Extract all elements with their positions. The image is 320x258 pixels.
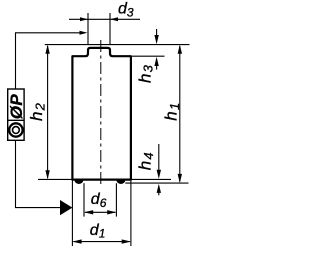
top extension line (seating of h1,h2,h3 top): [45, 44, 190, 46]
capacitor body outline: [72, 48, 130, 180]
dimension d6 extension lines: [83, 183, 85, 216]
bottom extension line (body bottom): [38, 178, 171, 180]
centerline (axis): [100, 40, 102, 186]
shoulder extension line (right): [132, 55, 165, 57]
dimension d3 extension lines: [87, 13, 89, 45]
dimension h2 line with arrows: [47, 46, 49, 178]
dimension h1 line with arrows: [179, 46, 181, 182]
left foot bump: [74, 180, 83, 184]
dimension d6 line with arrows: [85, 211, 115, 213]
datum solid triangle on d1 extension: [60, 200, 72, 215]
dimension d1 extension lines: [71, 180, 73, 246]
tolerance frame box: [8, 89, 24, 140]
concentricity symbol: [9, 123, 22, 136]
svg-text:ØP: ØP: [7, 94, 26, 120]
dimension d1 line with arrows: [73, 241, 129, 243]
tolerance frame leader (bottom run to datum triangle): [16, 140, 61, 207]
right foot bump: [116, 180, 125, 184]
dimension h3 arrows: [156, 29, 158, 37]
bottom seating plane line: [125, 182, 188, 184]
dimension h4 arrows: [158, 144, 160, 172]
tolerance frame leader (top run with arrow to d3 extension): [16, 33, 80, 89]
dimension d3 line with arrows: [69, 18, 140, 20]
